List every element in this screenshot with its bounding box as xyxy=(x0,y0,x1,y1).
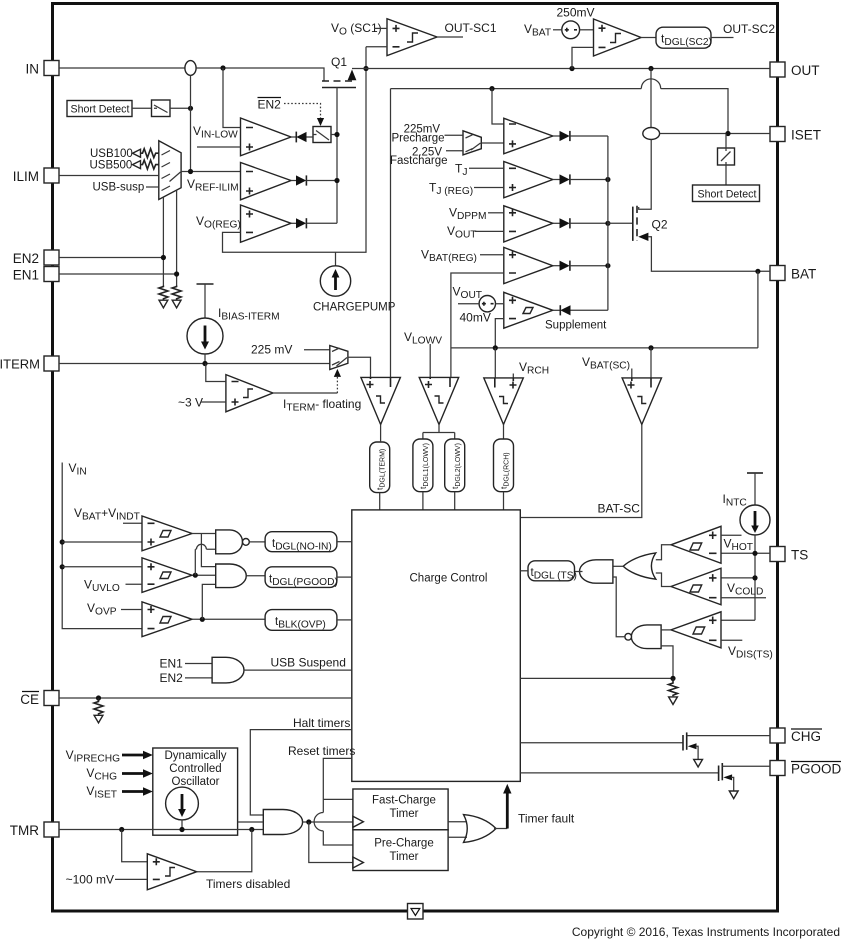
wire chargepump riser xyxy=(335,252,337,266)
AND gate pgood xyxy=(216,564,247,588)
wire CHG gate xyxy=(520,742,683,744)
wire OR out xyxy=(494,828,507,830)
transistor CHG fet gate bar xyxy=(682,735,684,751)
comparator supplement (E) xyxy=(504,292,553,328)
comparator VDPPM (C) xyxy=(504,206,553,242)
current sense ellipse on Q2 branch xyxy=(643,128,660,140)
wire AND timer out to fast clk xyxy=(303,821,353,823)
svg-text:ITERM: ITERM xyxy=(0,357,40,372)
wire comp out tie to TMR xyxy=(197,830,252,872)
SEC4_MIDDLE xyxy=(59,284,662,781)
Short Detect box (input) xyxy=(67,101,132,117)
wire ISET net left vertical xyxy=(390,89,392,378)
wire VIN-LOW minus sense xyxy=(223,68,241,128)
node BAT bus x651 xyxy=(648,345,653,350)
chargepump current source xyxy=(320,266,350,296)
wire ILIM to mux xyxy=(59,175,159,177)
svg-text:Reset timers: Reset timers xyxy=(288,744,355,758)
mux internal select lines xyxy=(162,151,181,191)
svg-text:USB500: USB500 xyxy=(90,160,133,172)
wire VOUT stub xyxy=(475,230,504,232)
wire box to charge control xyxy=(379,493,381,510)
node feedback at OUT bus xyxy=(363,66,368,71)
SEC7_BOTTOM xyxy=(59,716,770,891)
wire AND TS out to box xyxy=(575,571,583,573)
node ISET net x492 xyxy=(489,86,494,91)
svg-text:EN2: EN2 xyxy=(13,251,39,266)
wire VRCH comp to box xyxy=(503,425,505,440)
mux precharge internal line xyxy=(466,135,481,152)
node mux output xyxy=(188,169,193,174)
supply bar INTC xyxy=(747,472,763,474)
svg-text:BAT-SC: BAT-SC xyxy=(598,502,641,516)
wire 2.25V to mux xyxy=(446,150,463,152)
delay box tDGL(TS) xyxy=(528,561,577,582)
svg-text:OUT-SC1: OUT-SC1 xyxy=(445,21,497,35)
mux ILIM select trapezoid xyxy=(159,141,181,200)
svg-text:Dynamically: Dynamically xyxy=(165,750,227,762)
wire VBAT(SC) stub xyxy=(631,369,633,378)
wire VBAT(REG) stub xyxy=(480,254,504,256)
svg-text:Timers disabled: Timers disabled xyxy=(206,877,290,891)
svg-text:Q2: Q2 xyxy=(652,218,668,232)
wire mux output xyxy=(181,171,240,173)
svg-text:ISET: ISET xyxy=(791,128,821,143)
mux precharge/fastcharge trapezoid xyxy=(463,131,481,155)
wire VIN to comp1 plus xyxy=(62,541,142,543)
node EN2 junction xyxy=(161,255,166,260)
comparator VBAT(SC) (down) xyxy=(622,378,661,425)
switch box on Q1 gate path xyxy=(313,127,331,143)
wire Q2 source to BAT xyxy=(648,237,770,271)
wire comp3 out to tBLK xyxy=(192,618,265,620)
wire VDIS ref stub xyxy=(721,639,742,641)
wire ISET net to precharge comp minus xyxy=(492,89,504,124)
wire OR out to AND xyxy=(613,565,623,567)
resistor EN1 pulldown xyxy=(172,286,181,300)
pin PGOOD (active low) xyxy=(770,761,842,777)
diode D2 xyxy=(291,175,337,185)
ground arrow TS pulldown xyxy=(669,697,678,705)
node TMR comp tap xyxy=(119,827,124,832)
pin ITERM xyxy=(0,356,59,372)
wire RCH box to charge control xyxy=(503,492,505,510)
transistor Q1 gate bar xyxy=(322,87,356,89)
svg-text:Q1: Q1 xyxy=(331,55,347,69)
wire VO(REG) feedback from OUT xyxy=(223,47,367,252)
OR gate timer fault xyxy=(464,815,497,843)
svg-text:OUT: OUT xyxy=(791,63,820,78)
source 250mV circle xyxy=(562,21,580,39)
diode B xyxy=(553,174,608,184)
wire VRCH stub down xyxy=(512,374,514,378)
switch box for short detect xyxy=(152,100,171,117)
wire VIN-LOW plus stub xyxy=(197,146,241,148)
transistor CHG fet channel xyxy=(686,732,688,749)
node on sense feedback line xyxy=(188,106,193,111)
wire reset to fast box xyxy=(323,798,353,800)
node BAT bus x495.3 xyxy=(493,345,498,350)
svg-text:IN: IN xyxy=(26,62,40,77)
wire VCOLD out to OR xyxy=(656,573,671,587)
OR gate TS (left) xyxy=(623,553,656,579)
pin OUT xyxy=(770,62,820,78)
svg-text:USB Suspend: USB Suspend xyxy=(271,656,346,670)
wire switch to short detect box xyxy=(725,165,727,185)
pin EN1 xyxy=(13,267,59,283)
node comp3 out xyxy=(200,617,205,622)
wire E minus to BAT bus xyxy=(495,319,504,348)
wire OUT bus xyxy=(352,68,770,70)
delay box tBLK(OVP) xyxy=(265,610,337,631)
wire VBAT+VINDT stub xyxy=(123,522,142,524)
wire VHOT out to OR xyxy=(656,545,671,560)
comparator VDIS (left) xyxy=(671,612,721,648)
wire VOVP stub xyxy=(121,609,142,611)
svg-text:Timer: Timer xyxy=(390,808,419,820)
wire PGOOD gate xyxy=(520,772,718,774)
NAND gate TS (left, bubble) xyxy=(625,625,661,649)
wire EN1 to mux pulldown xyxy=(59,190,177,285)
node gate bus mid xyxy=(334,178,339,183)
wire CHG source down xyxy=(696,746,699,759)
delay box tDGL(TERM) xyxy=(370,442,390,493)
comparator VLOWV (down) xyxy=(419,377,459,424)
wire IN bus right of sense xyxy=(196,68,324,81)
wire comp2 out to AND xyxy=(192,574,216,576)
wire comp1 branch to AND xyxy=(201,534,215,567)
wire opamp output xyxy=(273,392,338,394)
wire VIN rail xyxy=(62,463,142,629)
hollow arrow USB100 xyxy=(133,149,141,157)
wire OUT to Q2 sense vertical xyxy=(650,69,652,128)
comparator VREF-ILIM xyxy=(241,163,292,200)
wire sense to Q2 drain xyxy=(639,140,652,210)
pin CE (active low) xyxy=(20,691,59,708)
pin TS xyxy=(770,547,808,563)
source 40mV circle xyxy=(479,296,495,312)
wire AND out xyxy=(246,575,265,577)
wire VO(SC1) to plus xyxy=(374,27,387,29)
svg-text:Controlled: Controlled xyxy=(169,763,221,775)
wire INTC to TS net xyxy=(721,535,755,620)
wire comp1 out to NAND xyxy=(192,533,216,535)
wire bank to Q2 gate xyxy=(608,222,633,224)
wire comp3 branch to AND xyxy=(202,584,215,619)
svg-text:Fast-Charge: Fast-Charge xyxy=(372,795,436,807)
pin CHG (active low) xyxy=(770,728,822,744)
wire mux ITERM output xyxy=(348,357,371,377)
DCO current source xyxy=(166,787,199,820)
svg-text:Short Detect: Short Detect xyxy=(71,103,130,115)
svg-text:EN2: EN2 xyxy=(258,98,282,112)
wires timer boxes to OR xyxy=(448,822,467,838)
comparator VIN-LOW xyxy=(241,118,292,156)
svg-text:Short Detect: Short Detect xyxy=(698,188,757,200)
ground arrow CHG xyxy=(694,759,703,767)
wire CE to CC xyxy=(59,697,352,699)
wire bar to INTC xyxy=(754,473,756,506)
svg-text:EN2: EN2 xyxy=(160,671,184,685)
AND gate timer xyxy=(263,810,302,835)
svg-text:EN1: EN1 xyxy=(160,657,184,671)
comparator OVP xyxy=(142,602,192,637)
resistor USB500 (horizontal) xyxy=(141,160,159,169)
wire opamp minus to ITERM xyxy=(206,364,226,382)
svg-text:USB-susp: USB-susp xyxy=(93,182,145,194)
wire OUT-SC2 xyxy=(711,37,734,39)
svg-text:OUT-SC2: OUT-SC2 xyxy=(723,22,775,36)
node CE pulldown xyxy=(96,695,101,700)
ground arrow CE xyxy=(94,715,103,723)
wire BAT-SC to charge control xyxy=(520,425,642,518)
comparator VO(REG) xyxy=(241,205,292,242)
transistor Q2 body arrow xyxy=(638,233,648,241)
wire source to E plus xyxy=(496,300,504,303)
transistor Q2 gate bar xyxy=(632,207,634,241)
svg-text:40mV: 40mV xyxy=(460,311,491,325)
svg-text:Charge Control: Charge Control xyxy=(410,573,488,585)
mux ITERM internal xyxy=(332,348,347,366)
wire branch to pre clk xyxy=(309,822,353,863)
svg-text:Timer fault: Timer fault xyxy=(518,812,575,826)
Fast-Charge Timer box xyxy=(353,789,448,830)
comparator SC2 xyxy=(594,19,642,56)
pin ISET xyxy=(770,127,821,143)
SEC5_VIN_GATES xyxy=(59,461,352,723)
comparator timers-disabled xyxy=(147,854,196,890)
wire SC1 output xyxy=(437,36,463,38)
wire 225mV to mux xyxy=(304,349,330,351)
comparator VRCH (down) xyxy=(484,378,524,425)
delay box tDGL2(LOWV) xyxy=(445,439,465,492)
node TMR comp out tie xyxy=(249,827,254,832)
svg-text:~100 mV: ~100 mV xyxy=(66,873,114,887)
wire VLOWV split to two boxes xyxy=(423,425,455,440)
node bank bus D xyxy=(605,263,610,268)
arrow VIPRECHG xyxy=(122,751,153,759)
wires EN to AND xyxy=(185,664,212,678)
node TS net xyxy=(752,551,757,556)
DCO box xyxy=(153,748,238,835)
wire EN2 dotted to switch xyxy=(284,104,321,120)
wire TJ(REG) stub xyxy=(474,187,504,189)
arrow into ITERM mux xyxy=(334,369,341,377)
svg-text:Halt timers: Halt timers xyxy=(293,716,350,730)
supply bar IBIAS xyxy=(197,283,214,285)
arrow timer fault into CC xyxy=(503,784,511,829)
svg-text:TS: TS xyxy=(791,548,808,563)
node TMR DCO tap xyxy=(179,827,184,832)
wire ~100mV stub xyxy=(115,878,147,880)
wire ISET net horizontal with hop xyxy=(391,79,729,134)
wire Q1 gate lead xyxy=(336,88,338,224)
comparator tDGL(TERM) (down) xyxy=(361,377,401,424)
wire PGOOD box to CC xyxy=(337,576,352,578)
wire reset timers with hop xyxy=(314,758,353,845)
pin ILIM xyxy=(13,168,59,184)
opamp ITERM-floating xyxy=(226,375,273,412)
wire VUVLO stub xyxy=(126,583,143,585)
diode D1 (reversed) xyxy=(291,132,313,143)
diode C xyxy=(553,218,608,228)
transistor Q1 channel (dashed) xyxy=(322,80,356,82)
comparator no-input (VBAT+VINDT) xyxy=(142,516,192,551)
node ITERM junction xyxy=(202,361,207,366)
wire TMR to comp plus xyxy=(122,830,148,862)
wire source to SC2 plus xyxy=(580,29,594,31)
wire short detect to sense line xyxy=(132,107,191,109)
AND gate TS (left) xyxy=(580,560,613,583)
svg-text:CE: CE xyxy=(20,692,39,707)
wire VDPPM stub xyxy=(488,212,504,214)
wire 225mV to mux xyxy=(445,134,464,136)
node gate bus top xyxy=(334,132,339,137)
ground arrow EN2 xyxy=(159,300,168,308)
resistor TS pulldown xyxy=(669,678,678,696)
wire comp2 to NAND with hop xyxy=(195,544,215,575)
wire CHG drain to pin xyxy=(687,735,770,737)
SEC3_TOPRIGHT xyxy=(331,6,775,378)
comparator UVLO xyxy=(142,558,192,593)
node BAT junction xyxy=(755,269,760,274)
wire VLOWV stub down xyxy=(429,344,431,377)
current source IBIAS-ITERM xyxy=(187,318,223,354)
node timer clk branch xyxy=(306,819,311,824)
wire box to CC xyxy=(520,570,528,572)
delay box tDGL(SC2) xyxy=(656,27,712,48)
wire BAT bus to VBAT(SC) right input xyxy=(650,348,652,378)
comparator precharge (A) xyxy=(504,118,553,154)
wire VIN to comp2 plus xyxy=(62,566,142,568)
wire mux to precharge comp plus xyxy=(481,142,504,144)
Charge Control block xyxy=(352,510,521,782)
node IN sense tap xyxy=(220,65,225,70)
svg-text:250mV: 250mV xyxy=(557,6,595,20)
wire USB-susp stub xyxy=(146,186,159,188)
wire IN bus xyxy=(59,67,185,69)
wire ISET to switch xyxy=(725,134,727,149)
svg-text:Fastcharge: Fastcharge xyxy=(390,155,448,167)
wire ~3V stub xyxy=(201,401,226,403)
resistor CE pulldown xyxy=(94,698,103,715)
wire ISET tap to pin xyxy=(660,133,770,135)
diode E (reversed) xyxy=(553,305,608,315)
wire SC2 output xyxy=(641,37,656,39)
comparator VHOT (left) xyxy=(671,526,721,563)
mux ITERM trapezoid xyxy=(330,346,348,370)
svg-text:CHG: CHG xyxy=(791,729,821,744)
delay box tDGL(RCH) xyxy=(494,439,514,492)
wire NAND ts input 2 xyxy=(661,646,673,679)
wire TJ stub xyxy=(469,167,504,169)
node EN1 junction xyxy=(174,271,179,276)
pin EN2 xyxy=(13,250,59,266)
wire NO-IN box to CC xyxy=(337,541,352,543)
SEC6_TS xyxy=(520,473,773,705)
wire bar to IBIAS source xyxy=(204,284,206,318)
ground arrow EN1 xyxy=(172,300,181,308)
node bank bus B xyxy=(605,177,610,182)
wire TMR xyxy=(59,829,263,831)
wire ITERM xyxy=(59,363,330,365)
current source INTC xyxy=(740,505,770,535)
pin TMR xyxy=(10,822,59,838)
wire BAT sense bus xyxy=(451,271,758,348)
wire SC1 minus from OUT xyxy=(366,46,387,48)
transistor Q1 body arrow to OUT xyxy=(348,70,357,81)
Pre-Charge Timer box xyxy=(353,830,448,871)
diode A xyxy=(553,131,608,141)
wire VHOT ref stub xyxy=(721,534,742,536)
transistor PGOOD fet channel xyxy=(721,763,723,780)
current sense ellipse on IN xyxy=(185,61,196,76)
hollow arrow USB500 xyxy=(133,161,141,169)
wire EN2 to mux pulldown xyxy=(59,197,163,285)
node VIN rail to comp2 xyxy=(60,564,65,569)
Short Detect box (ISET) xyxy=(693,185,760,202)
switch box ISET short detect xyxy=(718,148,735,165)
arrow EN2 into switch xyxy=(317,118,324,126)
wire VCOLD ref stub xyxy=(721,597,766,599)
wire VDIS out to NAND xyxy=(661,629,671,631)
delay box tDGL1(LOWV) xyxy=(413,439,433,492)
delay box tDGL(PGOOD) xyxy=(265,567,338,588)
arrow VISET xyxy=(122,787,153,795)
wire bank output bus xyxy=(607,136,609,310)
node pulldown xyxy=(670,676,675,681)
delay box tDGL(NO-IN) xyxy=(265,532,337,553)
wire dotted iterm-float to mux xyxy=(336,376,338,393)
node comp2 out xyxy=(193,573,198,578)
svg-text:ILIM: ILIM xyxy=(13,169,39,184)
wire halt timers xyxy=(250,730,351,815)
AND gate usb suspend xyxy=(212,657,244,683)
resistor USB100 (horizontal) xyxy=(141,149,159,158)
wire NAND ts out to AND ts xyxy=(613,577,625,637)
node VIN rail to comp1 xyxy=(60,539,65,544)
SEC2_TOPLEFT xyxy=(59,47,396,314)
comparator SC1 xyxy=(387,19,437,56)
pin IN xyxy=(26,61,60,77)
node OUT bus x572 xyxy=(569,66,574,71)
node ISET wire xyxy=(725,131,730,136)
resistor EN2 pulldown xyxy=(159,286,168,300)
node bank bus C xyxy=(605,221,610,226)
svg-text:Oscillator: Oscillator xyxy=(172,776,220,788)
transistor CHG body arrow xyxy=(688,743,697,749)
wire CC to pulldown net xyxy=(520,677,673,679)
svg-text:TMR: TMR xyxy=(10,823,39,838)
wire OVP box to CC xyxy=(337,619,352,621)
comparator VBAT(REG) (D) xyxy=(504,247,553,283)
diode D3 xyxy=(291,218,337,228)
diode D xyxy=(553,261,608,271)
svg-text:Copyright © 2016, Texas Instru: Copyright © 2016, Texas Instruments Inco… xyxy=(572,925,840,939)
svg-text:Pre-Charge: Pre-Charge xyxy=(374,838,433,850)
svg-text:PGOOD: PGOOD xyxy=(791,762,842,777)
transistor PGOOD body arrow xyxy=(723,774,732,780)
wires LOWV boxes to charge control xyxy=(423,492,455,510)
wire VOUT into source xyxy=(458,303,479,305)
wire SC2 minus to OUT bus xyxy=(572,47,594,68)
wire VBAT sense to D minus xyxy=(451,273,504,377)
arrow VCHG xyxy=(122,769,153,777)
wire NAND out xyxy=(249,541,265,543)
svg-text:Supplement: Supplement xyxy=(545,320,607,332)
label EN2 (overline) xyxy=(258,98,282,112)
pin VSS bottom xyxy=(408,904,424,920)
